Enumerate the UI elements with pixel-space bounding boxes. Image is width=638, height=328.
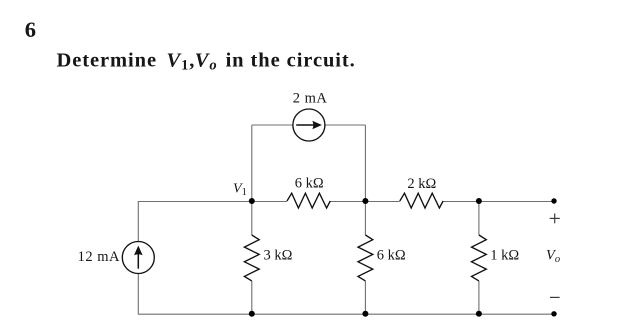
wire: top branch left of 2mA source [252,124,293,126]
wire: 1k resistor top lead [478,201,480,235]
wire: riser from node V1 to top branch [251,125,253,201]
svg-text:DetermineV1,Voin the circuit.: DetermineV1,Voin the circuit. [57,49,356,73]
wire: main rail middle segment [330,201,400,203]
node bottom middle dot [362,311,368,317]
wire: 3k resistor top lead [251,201,253,235]
plus sign [550,214,560,224]
terminal top-right dot [551,198,556,203]
node middle junction dot [362,198,368,204]
current source I2 2mA circle [293,109,325,141]
resistor R 1k vertical body [472,235,487,281]
wire: left rail bottom segment (12mA source to bottom rail) [137,274,139,314]
resistor R 2k horizontal body [400,193,443,208]
resistor R 3k vertical body [244,235,259,281]
node bottom right dot [476,311,482,317]
svg-text:2 kΩ: 2 kΩ [407,176,436,192]
terminal bottom-right dot [551,311,556,316]
resistor R 6k horizontal body [287,193,330,208]
node bottom V1 dot [249,311,255,317]
wire: 1k resistor bottom lead [478,281,480,314]
wire: top branch right of 2mA source [325,124,366,126]
wire: left rail top segment (main rail to 12mA source) [137,201,139,242]
wire: 6k vertical resistor top lead [364,201,366,235]
svg-text:1 kΩ: 1 kΩ [490,248,519,264]
current source I1 arrow (up) [134,246,143,269]
wire: 3k resistor bottom lead [251,281,253,314]
svg-text:6: 6 [25,17,36,42]
minus sign [550,296,560,298]
wire: bottom rail [138,313,554,315]
resistor R 6k vertical body [358,235,373,281]
node V1 junction dot [249,198,255,204]
current source I1 12mA circle [122,242,154,274]
svg-text:6 kΩ: 6 kΩ [295,176,324,192]
svg-text:12 mA: 12 mA [78,249,120,265]
svg-text:V1: V1 [233,181,247,198]
svg-text:2 mA: 2 mA [293,91,328,107]
svg-text:Vo: Vo [546,248,560,266]
wire: main rail right segment [443,201,554,203]
svg-text:6 kΩ: 6 kΩ [377,248,406,264]
svg-text:3 kΩ: 3 kΩ [264,248,293,264]
wire: drop from top branch to middle node [364,125,366,201]
wire: 6k vertical resistor bottom lead [364,281,366,314]
node right junction dot [476,198,482,204]
wire: main rail left segment [138,201,287,203]
current source I2 arrow (right) [296,121,322,130]
